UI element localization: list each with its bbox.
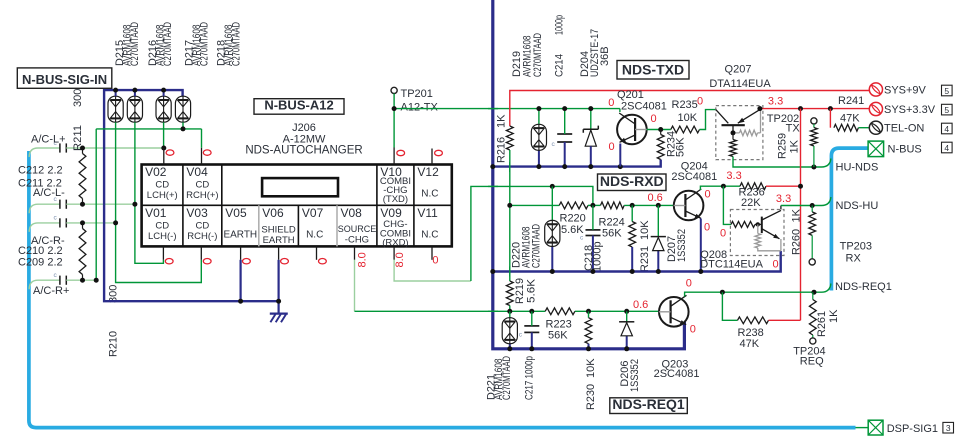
svg-text:V08: V08 — [341, 206, 363, 220]
wire HU-NDS — [733, 157, 831, 168]
ground symbol — [270, 314, 288, 323]
wire D215 stub — [115, 90, 117, 96]
svg-text:HU-NDS: HU-NDS — [836, 161, 879, 173]
diode D207 — [651, 237, 666, 251]
pin stub bottom row — [431, 246, 433, 259]
svg-text:R241: R241 — [838, 95, 864, 107]
transistor Q201 — [617, 113, 647, 144]
svg-text:TX: TX — [786, 123, 801, 135]
wire R224 to Q204 — [624, 204, 674, 206]
capacitor C218 — [580, 205, 601, 271]
svg-text:-CHG: -CHG — [345, 234, 369, 245]
svg-text:NDS-REQ1: NDS-REQ1 — [612, 396, 685, 412]
svg-text:V11: V11 — [417, 206, 438, 220]
resistor R241 — [829, 109, 831, 128]
node RXD rail — [490, 269, 495, 274]
svg-text:47K: 47K — [740, 338, 760, 350]
svg-text:RX: RX — [846, 252, 862, 264]
wire A/C-R+ row — [66, 279, 96, 281]
pin V12 cell label — [417, 165, 439, 200]
wire R220-R224 — [588, 204, 601, 206]
svg-text:C270MTAAD: C270MTAAD — [230, 22, 242, 66]
svg-text:V02: V02 — [145, 165, 167, 179]
node diode tops — [113, 88, 118, 93]
svg-text:56K: 56K — [602, 227, 622, 239]
pin stub bottom row — [278, 246, 280, 259]
pin stub bottom row — [162, 246, 164, 259]
pin V09 cell label — [380, 206, 411, 249]
wire V08 to NDS-REQ1 — [354, 260, 356, 312]
svg-text:C212 2.2: C212 2.2 — [18, 165, 63, 177]
svg-text:LCH(-): LCH(-) — [148, 231, 177, 242]
testpoint TP202 — [811, 118, 817, 124]
digital transistor Q207 DTA114EUA — [716, 106, 763, 160]
wire R216 down to RXD/REQ1 — [509, 150, 511, 281]
svg-text:DSP-SIG1: DSP-SIG1 — [887, 423, 938, 435]
svg-text:(TXD): (TXD) — [383, 194, 408, 205]
svg-text:0: 0 — [609, 141, 615, 153]
svg-text:56K: 56K — [675, 137, 687, 157]
pin V06 cell label — [261, 206, 295, 246]
resistor R220 — [559, 202, 588, 209]
diode D206 — [619, 322, 634, 336]
svg-text:A/C-L+: A/C-L+ — [31, 134, 66, 146]
svg-text:4: 4 — [944, 124, 949, 134]
diode D219 stubs — [538, 109, 540, 125]
svg-text:DTC114EUA: DTC114EUA — [700, 258, 763, 270]
svg-text:0: 0 — [686, 278, 692, 290]
svg-text:0: 0 — [651, 113, 657, 125]
svg-text:V12: V12 — [417, 165, 439, 179]
diode D219 — [531, 124, 546, 150]
svg-text:C214: C214 — [554, 54, 566, 77]
svg-text:J206: J206 — [292, 122, 316, 134]
svg-text:CD: CD — [195, 180, 209, 191]
svg-text:1SS352: 1SS352 — [676, 229, 688, 262]
resistor R260 — [811, 206, 813, 212]
svg-text:C270MTAAD: C270MTAAD — [162, 22, 174, 66]
svg-text:TEL-ON: TEL-ON — [884, 123, 924, 135]
svg-text:1K: 1K — [791, 208, 803, 222]
svg-text:C210 2.2: C210 2.2 — [18, 245, 63, 257]
svg-text:Q201: Q201 — [617, 89, 644, 101]
svg-text:0: 0 — [697, 95, 703, 107]
wire stub to DSP-SIG1 — [856, 427, 869, 429]
svg-text:NDS-AUTOCHANGER: NDS-AUTOCHANGER — [245, 145, 362, 157]
connector DSP-SIG1 — [868, 420, 883, 435]
svg-text:CD: CD — [195, 220, 209, 231]
pin V03 cell label — [186, 206, 217, 242]
svg-text:R235: R235 — [672, 99, 698, 111]
wire A/C-L- row — [66, 203, 135, 205]
wire D206 leads — [626, 311, 628, 322]
svg-text:0: 0 — [608, 97, 614, 109]
node R231 top — [630, 203, 635, 208]
connector SYS+3.3V — [869, 102, 882, 115]
pin V07 cell label — [302, 206, 324, 241]
capacitor C217 — [519, 311, 540, 349]
wire REQ row — [355, 310, 659, 312]
svg-text:V03: V03 — [186, 206, 208, 220]
svg-text:R219: R219 — [514, 278, 526, 304]
svg-text:0: 0 — [773, 259, 779, 271]
svg-text:3.3: 3.3 — [726, 170, 741, 182]
label NDS-TXD — [617, 61, 689, 80]
svg-text:1000p: 1000p — [554, 15, 566, 35]
svg-text:R216: R216 — [496, 137, 508, 163]
svg-text:LCH(+): LCH(+) — [147, 190, 178, 201]
svg-text:2SC4081: 2SC4081 — [654, 368, 700, 380]
capacitor A/C-R+ coupling cap — [54, 272, 67, 285]
svg-text:NDS-HU: NDS-HU — [836, 200, 879, 212]
wire Q201 base to R235 — [647, 129, 671, 131]
svg-text:NDS-TXD: NDS-TXD — [622, 62, 684, 78]
svg-text:10K: 10K — [678, 112, 698, 124]
wire navy earth loop (diode tops to EARTH rail) — [104, 90, 279, 301]
svg-text:V06: V06 — [262, 206, 284, 220]
svg-text:R230: R230 — [585, 384, 597, 410]
wire NDS-HU — [781, 197, 831, 206]
svg-text:EARTH: EARTH — [223, 229, 257, 240]
node TXD rail — [490, 164, 495, 169]
pin V12 stub — [431, 149, 433, 165]
svg-text:5: 5 — [944, 105, 949, 115]
svg-text:N.C: N.C — [306, 229, 323, 240]
svg-text:1K: 1K — [828, 309, 840, 323]
pin V05 cell label — [223, 206, 257, 241]
node RXD — [507, 203, 512, 208]
node TXD signal — [536, 106, 541, 111]
svg-text:SYS+3.3V: SYS+3.3V — [884, 104, 936, 116]
svg-text:10K: 10K — [585, 358, 597, 378]
wire SYS+3.3V red — [760, 108, 869, 110]
wire R235 to Q207 — [700, 110, 717, 130]
svg-text:0: 0 — [690, 323, 696, 335]
connector J206 body — [142, 165, 452, 247]
svg-text:1SS352: 1SS352 — [629, 359, 641, 392]
node D220 top — [550, 184, 555, 189]
svg-text:1K: 1K — [496, 114, 508, 128]
pin V08 cell label — [338, 206, 377, 246]
pin stub bottom row — [240, 246, 242, 259]
resistor R219 — [506, 281, 513, 306]
diode D217 — [156, 96, 171, 122]
wire main earth bus vertical — [493, 0, 685, 349]
svg-text:N-BUS-SIG-IN: N-BUS-SIG-IN — [22, 72, 107, 87]
node earth rail — [238, 299, 243, 304]
resistor R261 — [812, 292, 814, 299]
svg-text:1000p: 1000p — [592, 241, 604, 272]
svg-text:N-BUS: N-BUS — [888, 144, 922, 156]
wire D217 to A/C-L+ node — [163, 122, 165, 148]
pin stub bottom row — [354, 246, 356, 259]
svg-text:C270MTAAD: C270MTAAD — [531, 224, 543, 268]
pin 0 ovals bottom row — [165, 259, 173, 264]
testpoint TP203 — [809, 259, 815, 265]
connector N-BUS — [868, 141, 884, 157]
svg-text:EARTH: EARTH — [263, 235, 295, 246]
svg-text:8.0: 8.0 — [394, 252, 406, 267]
wire RXD ground rail — [493, 251, 781, 272]
svg-text:N.C: N.C — [421, 189, 438, 200]
resistor R223 — [545, 308, 575, 315]
svg-text:Q207: Q207 — [725, 64, 752, 76]
svg-text:C270MTAAD: C270MTAAD — [198, 22, 210, 66]
svg-text:C209 2.2: C209 2.2 — [18, 257, 63, 269]
svg-text:N.C: N.C — [421, 229, 438, 240]
node 3.3V line — [757, 106, 762, 111]
resistor R259 — [813, 124, 815, 128]
node C218 top — [590, 203, 595, 208]
svg-text:A12-TX: A12-TX — [401, 101, 439, 113]
wire D217 stub — [163, 90, 165, 96]
wire Q201 collector — [619, 109, 621, 112]
diode D215 — [108, 96, 123, 122]
svg-text:(RXD): (RXD) — [382, 237, 408, 248]
svg-text:C211 2.2: C211 2.2 — [18, 178, 62, 190]
wire A/C-L- from bus — [29, 204, 59, 213]
svg-text:C270MTAAD: C270MTAAD — [501, 356, 513, 400]
svg-text:TP203: TP203 — [840, 240, 872, 252]
pin V10 cell label — [380, 165, 411, 205]
node HU-NDS — [811, 165, 816, 170]
svg-text:A/C-R+: A/C-R+ — [33, 285, 69, 297]
svg-text:5.6K: 5.6K — [526, 278, 538, 303]
svg-text:SYS+9V: SYS+9V — [884, 84, 927, 96]
diode D216 — [127, 96, 142, 122]
node NDS-HU — [810, 203, 815, 208]
wire A/C-L+ row — [66, 147, 164, 149]
svg-text:V07: V07 — [302, 206, 324, 220]
svg-text:RCH(-): RCH(-) — [187, 231, 217, 242]
wire D216 stub — [134, 90, 136, 96]
svg-text:CD: CD — [155, 180, 169, 191]
svg-text:V09: V09 — [380, 206, 402, 220]
svg-text:V04: V04 — [186, 165, 208, 179]
svg-text:36B: 36B — [599, 46, 611, 66]
svg-text:SOURCE: SOURCE — [338, 224, 377, 234]
wire V05 earth — [240, 260, 242, 301]
resistor R231 — [631, 205, 633, 221]
pin stub bottom row — [393, 246, 395, 259]
node junctions left section — [181, 126, 186, 131]
svg-text:V05: V05 — [225, 206, 247, 220]
wire Q208 input — [723, 186, 731, 224]
pin V04 stub — [201, 148, 203, 165]
node Q201 base — [658, 127, 663, 132]
wire V09 to NDS-RXD — [394, 260, 471, 281]
label N-BUS-A12 — [254, 99, 344, 115]
resistor R236 — [740, 183, 766, 190]
diode D221 — [502, 318, 517, 344]
svg-text:3.3: 3.3 — [776, 193, 791, 205]
svg-text:0: 0 — [704, 222, 710, 234]
N-BUS bus line (right) — [831, 148, 868, 290]
wire A/C-L+ from bus — [29, 148, 59, 157]
wire Q201 emitter to rail — [619, 144, 621, 167]
svg-text:5: 5 — [944, 86, 949, 96]
svg-text:NDS-RXD: NDS-RXD — [600, 173, 664, 189]
svg-text:0.6: 0.6 — [648, 192, 663, 204]
pin V02 cell label — [145, 165, 178, 201]
svg-text:C217 1000p: C217 1000p — [524, 356, 536, 400]
node Q203 collector — [720, 290, 725, 295]
svg-text:R210: R210 — [108, 331, 120, 357]
pin stub bottom row — [200, 246, 202, 259]
connector SYS+9V — [869, 83, 882, 96]
svg-text:0.6: 0.6 — [633, 299, 648, 311]
svg-text:TP201: TP201 — [401, 88, 433, 100]
capacitor A/C-R- coupling cap — [54, 215, 67, 228]
svg-text:0: 0 — [705, 188, 711, 200]
capacitor A/C-L+ coupling cap — [54, 140, 67, 153]
transistor Q203 — [659, 295, 689, 326]
svg-text:56K: 56K — [548, 329, 568, 341]
diode D218 — [175, 96, 190, 122]
capacitor C214 — [552, 109, 573, 167]
capacitor A/C-L- coupling cap — [54, 196, 67, 209]
wire Q204 emitter — [700, 219, 702, 272]
diode D220 stubs — [551, 186, 553, 220]
wire RXD input from V09 — [552, 186, 593, 205]
diode D221 stubs — [509, 311, 511, 317]
wire A/C-R+ from bus — [29, 280, 59, 289]
svg-text:C270MTAAD: C270MTAAD — [532, 33, 544, 77]
svg-text:300: 300 — [72, 89, 84, 107]
svg-text:R261: R261 — [816, 311, 828, 337]
resistor R235 — [671, 126, 700, 133]
svg-text:CD: CD — [155, 220, 169, 231]
diode D220 — [545, 220, 560, 246]
svg-text:N-BUS-A12: N-BUS-A12 — [264, 98, 333, 113]
svg-text:RCH(+): RCH(+) — [186, 190, 218, 201]
svg-text:3: 3 — [946, 423, 951, 433]
svg-text:10K: 10K — [639, 220, 651, 240]
svg-text:REQ: REQ — [800, 356, 824, 368]
svg-text:3.3: 3.3 — [768, 95, 783, 107]
pin V04 cell label — [186, 165, 218, 201]
svg-text:0: 0 — [432, 255, 438, 267]
pin V02 stub — [163, 148, 165, 165]
svg-text:NDS-REQ1: NDS-REQ1 — [835, 281, 892, 293]
testpoint TP204 — [810, 338, 816, 344]
svg-text:SHIELD: SHIELD — [261, 224, 295, 235]
svg-text:R260: R260 — [791, 229, 803, 255]
label NDS-REQ1 — [610, 398, 688, 414]
wire A/C-R- from bus — [29, 223, 59, 232]
node R236 in — [721, 184, 726, 189]
wire V06 earth — [278, 260, 280, 314]
svg-text:2SC4081: 2SC4081 — [621, 101, 667, 113]
testpoint TP201 — [391, 87, 397, 93]
digital transistor Q208 DTC114EUA — [730, 206, 784, 256]
wire D215 to V03 — [116, 122, 202, 282]
pin 0 ovals top row — [166, 150, 174, 155]
wire Q204 collector — [700, 186, 740, 190]
svg-text:0: 0 — [720, 227, 726, 239]
svg-text:8.0: 8.0 — [357, 252, 369, 267]
resistor R216 — [506, 126, 513, 150]
node TP201 — [392, 106, 397, 111]
wire crossing overlays — [488, 108, 498, 110]
wire SYS+9V red — [510, 91, 869, 127]
connector TEL-ON — [869, 121, 882, 134]
svg-text:C270MTAAD: C270MTAAD — [129, 22, 141, 66]
node red-R236 — [798, 184, 803, 189]
svg-text:DTA114EUA: DTA114EUA — [709, 78, 771, 90]
wire TXD ground rail — [493, 160, 661, 167]
resistor R234 — [660, 130, 662, 135]
resistor R238 — [722, 292, 737, 320]
svg-text:4: 4 — [944, 143, 949, 153]
node REQ row — [507, 309, 512, 314]
svg-text:V01: V01 — [145, 206, 167, 220]
wire RXD row — [510, 204, 559, 206]
svg-text:2SC4081: 2SC4081 — [671, 171, 717, 183]
pin V01 cell label — [145, 206, 176, 242]
wire red vertical TXD-RXD-REQ — [800, 109, 802, 321]
zener D204 — [583, 109, 598, 167]
resistor R224 — [601, 202, 625, 209]
label N-BUS-SIG-IN — [17, 68, 112, 88]
svg-text:1K: 1K — [789, 139, 801, 153]
wire R236 to red — [766, 185, 801, 187]
wire D218/V04 net — [96, 122, 201, 280]
svg-text:R231: R231 — [639, 246, 651, 272]
pin stub bottom row — [316, 246, 318, 259]
node D207 top — [656, 203, 661, 208]
svg-text:47K: 47K — [840, 113, 860, 125]
wire A/C-R- row — [66, 222, 115, 224]
wire Q203 collector NDS-REQ1 — [685, 284, 831, 297]
node REQ rail — [507, 346, 512, 351]
label NDS-RXD — [598, 174, 667, 191]
transistor Q204 — [674, 189, 704, 220]
N-BUS bus line (left/bottom) — [29, 151, 856, 428]
pin V11 cell label — [417, 206, 438, 241]
pin V10 stub — [393, 148, 395, 165]
wire TP201 to V10 and TXD — [394, 94, 620, 148]
resistor R230 — [588, 311, 590, 317]
svg-text:R259: R259 — [777, 133, 789, 159]
wire D207 leads — [657, 205, 659, 236]
resistor R211 — [79, 154, 86, 199]
resistor R210 — [79, 229, 86, 275]
svg-text:22K: 22K — [741, 197, 761, 209]
wire D216 to V01 — [135, 122, 164, 263]
